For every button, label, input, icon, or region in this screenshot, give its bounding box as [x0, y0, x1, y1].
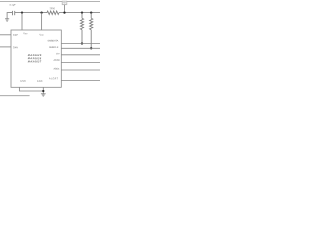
capacitor C1 [13, 11, 15, 15]
power rail [15, 12, 47, 14]
node dot D [81, 11, 83, 13]
svg-text:OT: OT [56, 54, 60, 56]
svg-text:DXN: DXN [13, 47, 18, 49]
resistor R1 200ohm [47, 11, 59, 15]
svg-text:200Ω: 200Ω [50, 8, 56, 10]
wire DXN [0, 46, 11, 48]
wire OT [61, 54, 100, 56]
op-amp U1 IC box [11, 30, 61, 87]
wire ADD0 [61, 62, 100, 64]
wire ADD1 [61, 69, 100, 71]
node dot C [63, 11, 65, 13]
resistor R2 pullup [80, 13, 83, 44]
node dot G [90, 47, 92, 49]
bottom rule [0, 95, 30, 97]
svg-text:DXP: DXP [13, 35, 18, 37]
node dot B [40, 11, 42, 13]
wire SMBDATA [61, 43, 100, 45]
ground G2 [41, 94, 46, 96]
svg-text:ADD0: ADD0 [54, 59, 61, 62]
svg-text:0.1μF: 0.1μF [10, 5, 17, 7]
wire ALERT [61, 80, 100, 82]
IC part numbers [28, 54, 42, 63]
wire cap to ground [7, 13, 12, 19]
wire supply stub [64, 5, 66, 13]
wire DXP [0, 34, 11, 36]
svg-text:VDD: VDD [23, 32, 28, 35]
node dot A [21, 11, 23, 13]
svg-text:ALERT: ALERT [49, 77, 59, 80]
node dot E [90, 11, 92, 13]
wire [59, 12, 100, 14]
resistor R3 pullup [90, 13, 93, 49]
supply box [62, 1, 67, 6]
wire GND pin 1 stub [19, 87, 43, 91]
top rule [0, 0, 100, 2]
node dot F [81, 42, 83, 44]
svg-text:GND: GND [37, 81, 43, 83]
wire SMBCLK [61, 47, 100, 49]
wire VDD pin 1 stub [21, 13, 23, 30]
svg-text:SMBCLK: SMBCLK [49, 47, 59, 49]
svg-text:MAX6627: MAX6627 [28, 60, 42, 63]
node dot H [42, 90, 44, 92]
svg-text:SMBDATA: SMBDATA [48, 39, 59, 42]
wire GND pin 2 stub [42, 87, 44, 93]
svg-text:VDD: VDD [39, 34, 44, 37]
ground G1 [5, 19, 9, 22]
wire VDD pin 2 stub [41, 13, 43, 30]
svg-text:ADD1: ADD1 [53, 68, 60, 71]
svg-text:GND: GND [20, 81, 26, 83]
